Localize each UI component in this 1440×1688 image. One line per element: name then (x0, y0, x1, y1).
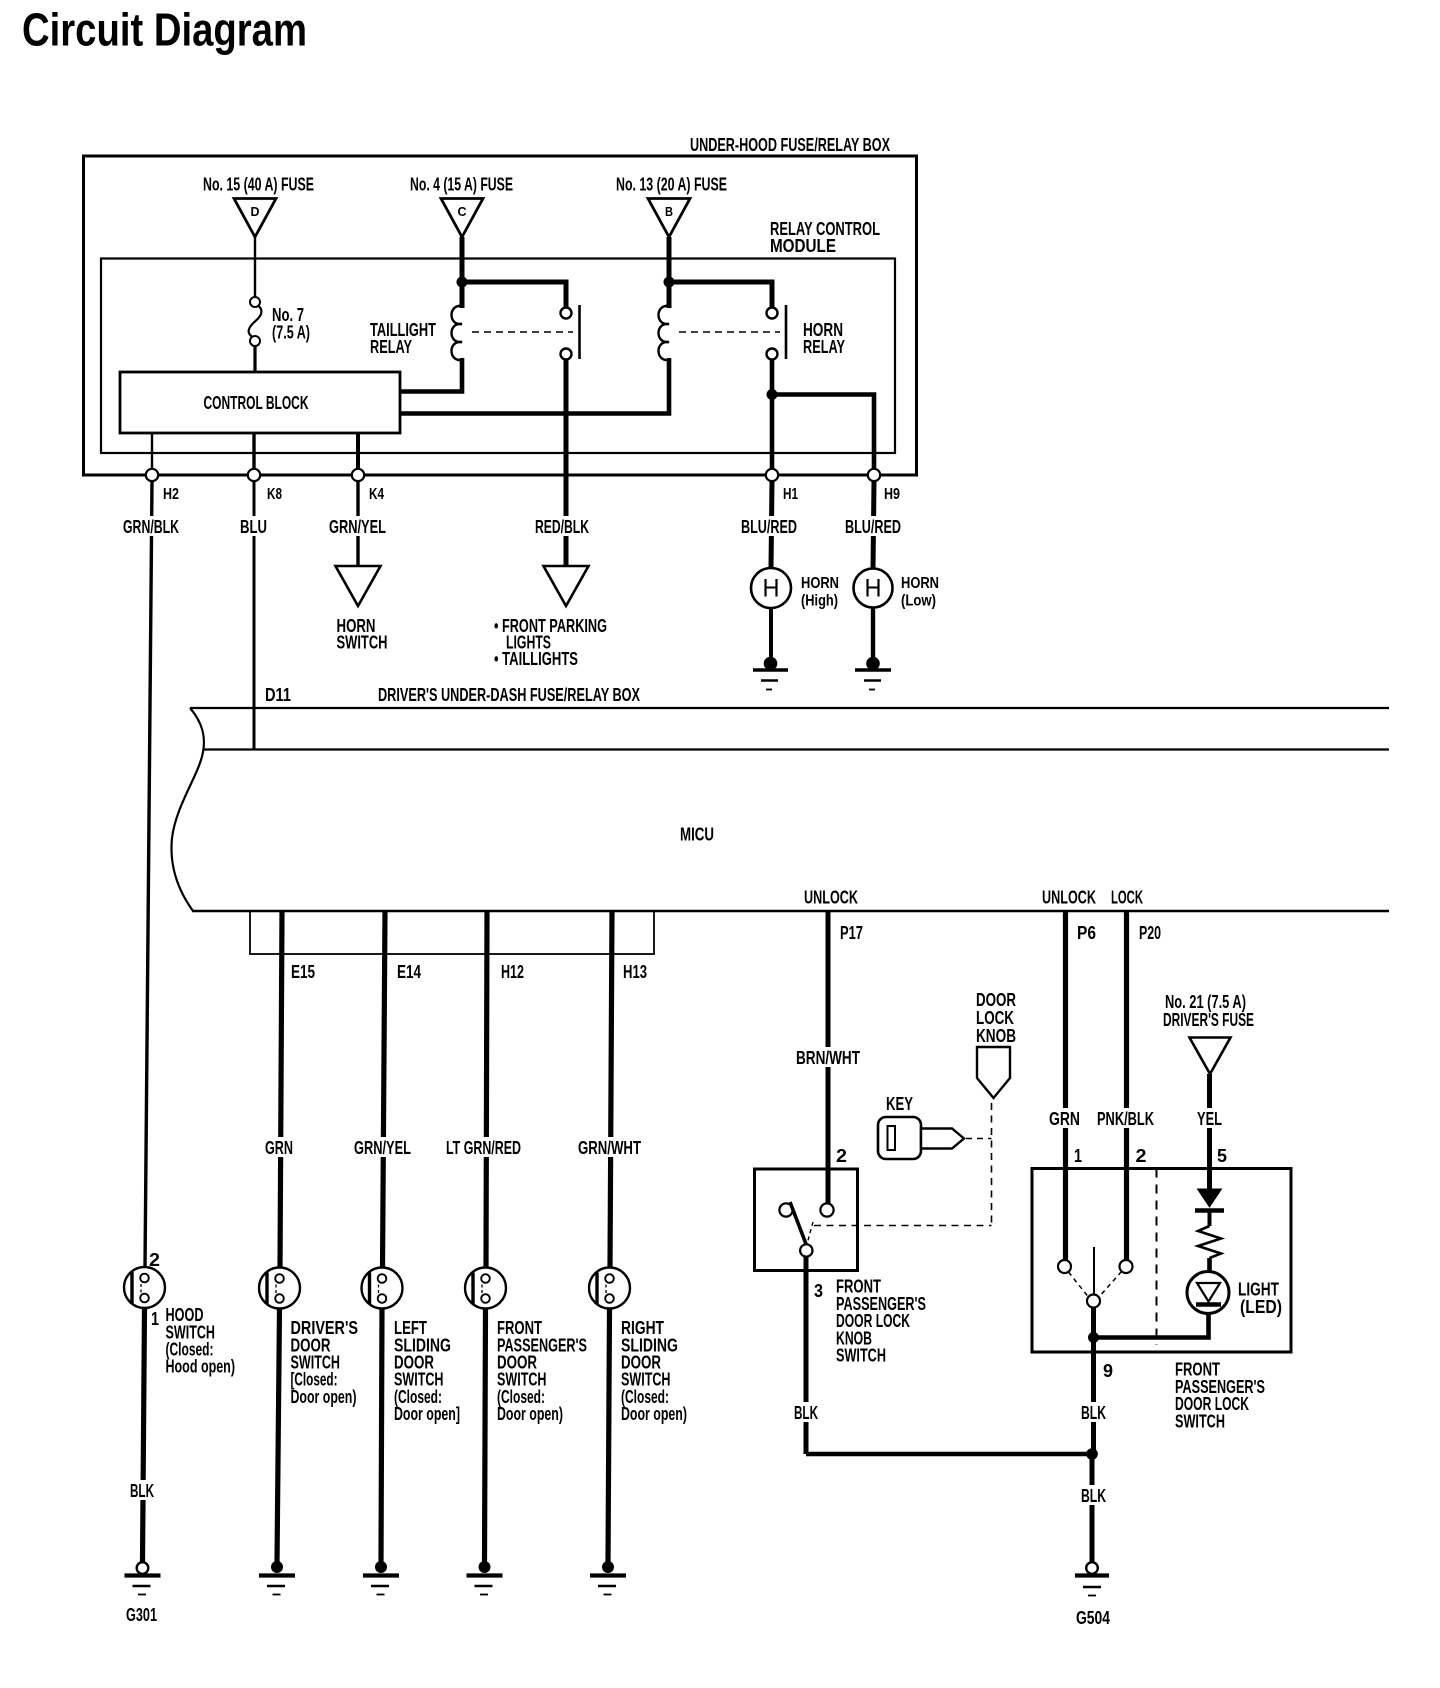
svg-text:G504: G504 (1076, 1608, 1110, 1628)
svg-text:BLU/RED: BLU/RED (741, 517, 797, 537)
wire control block to K4 (356, 433, 360, 475)
svg-text:KNOB: KNOB (976, 1026, 1016, 1046)
pin 1 hood switch (151, 1309, 159, 1329)
svg-text:BRN/WHT: BRN/WHT (796, 1048, 860, 1068)
node junction LED return (1088, 1332, 1099, 1343)
arrow to horn switch (336, 566, 388, 653)
wire junction to horn relay contact (669, 282, 772, 307)
front passenger's door lock switch box (1032, 1169, 1291, 1353)
relay control module box (101, 219, 895, 453)
horn high (751, 568, 839, 610)
wire LT GRN/RED H12 to front passenger door switch (486, 911, 487, 1268)
svg-text:DRIVER'S UNDER-DASH FUSE/RELAY: DRIVER'S UNDER-DASH FUSE/RELAY BOX (378, 685, 640, 705)
front passenger's door lock switch label (1175, 1360, 1265, 1432)
svg-text:P6: P6 (1077, 923, 1096, 943)
svg-text:Door open): Door open) (497, 1404, 563, 1424)
node junction fuse B feed (664, 277, 675, 288)
svg-text:GRN: GRN (265, 1138, 293, 1158)
diode D (1195, 1189, 1224, 1226)
label UNLOCK P6 (1042, 888, 1096, 908)
wire BLK junction to ground (1090, 1454, 1095, 1562)
wire GRN/YEL K4 to horn switch arrow (356, 481, 359, 567)
wire BLK knob switch down (804, 1256, 809, 1454)
taillight relay label (370, 320, 436, 357)
node junction BLK wires (1086, 1448, 1098, 1460)
svg-text:DOOR: DOOR (976, 990, 1016, 1010)
wire fuse B to horn relay coil (667, 237, 672, 308)
door lock knob symbol (977, 1047, 1010, 1098)
label BLK hood (128, 1480, 156, 1501)
svg-text:H2: H2 (163, 486, 179, 503)
svg-text:MICU: MICU (680, 825, 714, 845)
horn relay coil (659, 306, 670, 360)
label LOCK P20 (1111, 888, 1143, 908)
wire GRN/YEL E14 to left sliding door switch (383, 911, 386, 1268)
label BLU (238, 516, 269, 537)
pin E15 (291, 962, 315, 982)
svg-text:LOCK: LOCK (1111, 888, 1143, 908)
wire door lock switch common down (1091, 1308, 1096, 1455)
svg-text:H13: H13 (623, 962, 647, 982)
wire control block to K8 (252, 433, 255, 475)
svg-text:MODULE: MODULE (770, 236, 836, 256)
svg-text:BLK: BLK (130, 1481, 154, 1501)
under-dash box inner edge (203, 748, 1389, 750)
door lock switch dashed throws (1069, 1272, 1122, 1297)
wire left sliding door switch to ground (381, 1309, 382, 1563)
wire horn high to ground (769, 608, 773, 660)
svg-text:D: D (251, 204, 260, 219)
svg-text:P20: P20 (1139, 923, 1161, 943)
horn low (854, 569, 940, 610)
svg-text:KEY: KEY (886, 1094, 913, 1114)
door lock switch lever (1093, 1247, 1095, 1294)
pin P17 (840, 923, 863, 943)
dashed link key to knob line (966, 1138, 992, 1140)
svg-text:SWITCH: SWITCH (836, 1346, 886, 1366)
svg-text:BLK: BLK (1081, 1403, 1106, 1423)
svg-text:LT GRN/RED: LT GRN/RED (446, 1138, 521, 1158)
svg-text:G301: G301 (126, 1605, 157, 1625)
wire BLU K8 to under-dash box (253, 481, 256, 750)
ground right sliding door switch (590, 1561, 626, 1595)
fuse No.21 driver's fuse (1163, 992, 1254, 1074)
label PNK/BLK (1095, 1108, 1157, 1129)
svg-text:1: 1 (151, 1309, 159, 1329)
svg-text:No. 15 (40 A) FUSE: No. 15 (40 A) FUSE (203, 175, 314, 195)
driver's under-dash fuse/relay box label (378, 685, 640, 705)
horn relay dashed actuation link (679, 331, 780, 333)
node junction fuse C feed (457, 277, 468, 288)
pin P6 (1077, 923, 1096, 943)
front passenger's door switch label (497, 1318, 587, 1424)
taillight relay coil (452, 306, 463, 360)
svg-text:C: C (458, 204, 468, 219)
svg-text:No. 4 (15 A) FUSE: No. 4 (15 A) FUSE (410, 175, 513, 195)
horn relay label (803, 320, 845, 357)
svg-text:D11: D11 (265, 685, 291, 705)
control block (120, 372, 400, 433)
pin 9 door lock switch (1103, 1361, 1113, 1381)
svg-text:2: 2 (836, 1146, 847, 1166)
svg-text:P17: P17 (840, 923, 863, 943)
wire horn relay contact to H1 (770, 359, 775, 475)
svg-text:Door open]: Door open] (394, 1404, 460, 1424)
wire horn low to ground (871, 608, 875, 661)
door lock knob switch lever (790, 1202, 813, 1244)
door lock knob switch contacts (779, 1203, 833, 1256)
label LT GRN/RED (444, 1137, 523, 1158)
svg-text:GRN/YEL: GRN/YEL (329, 517, 386, 537)
label BRN/WHT (794, 1047, 862, 1068)
label GRN/YEL (327, 516, 388, 537)
wire GRN P6 to door lock switch (1063, 911, 1068, 1260)
svg-text:BLU: BLU (240, 517, 267, 537)
wire RED/BLK taillight contact to arrow (564, 359, 569, 566)
svg-text:5: 5 (1217, 1146, 1227, 1166)
svg-text:H1: H1 (783, 486, 798, 503)
pin 2 knob switch (836, 1146, 847, 1166)
svg-text:E14: E14 (397, 962, 421, 982)
node junction horn output (767, 389, 778, 400)
svg-text:SWITCH: SWITCH (1175, 1411, 1225, 1431)
ground G301 (125, 1562, 161, 1625)
hood switch label (166, 1305, 236, 1377)
dashed link to knob switch lever (814, 1225, 992, 1227)
hood switch (124, 1267, 165, 1308)
ground driver's door switch (259, 1561, 295, 1595)
front passenger's door switch (465, 1268, 506, 1309)
wire No.7 fuse to control block (253, 346, 256, 372)
svg-text:Hood open): Hood open) (166, 1357, 236, 1377)
wire BLU/RED H9 to horn low (873, 481, 874, 570)
wire GRN E15 to driver's door switch (280, 911, 282, 1268)
svg-text:RED/BLK: RED/BLK (535, 517, 589, 537)
svg-text:H: H (865, 575, 882, 603)
svg-text:Circuit Diagram: Circuit Diagram (22, 4, 307, 56)
label UNLOCK P17 (804, 888, 858, 908)
svg-text:LOCK: LOCK (976, 1008, 1014, 1028)
svg-text:PNK/BLK: PNK/BLK (1097, 1109, 1154, 1129)
title Circuit Diagram (22, 4, 307, 56)
svg-text:K4: K4 (369, 486, 384, 503)
door lock switch contacts (1058, 1260, 1133, 1308)
svg-text:(Low): (Low) (901, 593, 936, 610)
ground left sliding door switch (363, 1561, 399, 1595)
wire GRN/WHT H13 to right sliding door switch (610, 911, 612, 1268)
wire junction to taillight relay contact (462, 282, 566, 307)
svg-text:RELAY: RELAY (803, 337, 845, 357)
taillight relay dashed actuation link (472, 331, 573, 333)
label BLK knob switch (792, 1402, 820, 1423)
pin 1 door lock switch (1074, 1146, 1082, 1166)
svg-text:3: 3 (814, 1281, 823, 1301)
left sliding door switch label (394, 1318, 460, 1424)
horn relay contact (767, 305, 787, 360)
svg-text:B: B (665, 204, 673, 219)
svg-text:(7.5 A): (7.5 A) (272, 323, 310, 343)
svg-text:1: 1 (1074, 1146, 1082, 1166)
fuse B No.13 20A (616, 175, 727, 238)
svg-text:H: H (763, 575, 780, 603)
pin H2 (146, 469, 179, 503)
wire YEL fuse to diode (1207, 1074, 1212, 1189)
under-dash box bottom edge (192, 910, 1389, 913)
svg-text:BLK: BLK (794, 1403, 818, 1423)
svg-text:DRIVER'S FUSE: DRIVER'S FUSE (1163, 1010, 1254, 1030)
pin 2 door lock switch (1136, 1146, 1147, 1166)
pin P20 (1139, 923, 1161, 943)
svg-text:H9: H9 (884, 486, 900, 503)
pin E14 (397, 962, 421, 982)
driver's door switch label (291, 1318, 359, 1407)
pin 3 knob switch (814, 1281, 823, 1301)
svg-text:2: 2 (149, 1250, 160, 1270)
connector bracket under MICU (250, 911, 654, 954)
svg-text:2: 2 (1136, 1146, 1147, 1166)
wire horn relay coil to control block (401, 358, 669, 414)
svg-text:CONTROL BLOCK: CONTROL BLOCK (204, 393, 309, 413)
svg-text:BLK: BLK (1081, 1486, 1106, 1506)
wire GRN/BLK H2 to hood switch (145, 481, 152, 1269)
wire driver's door switch to ground (277, 1309, 280, 1563)
svg-text:9: 9 (1103, 1361, 1113, 1381)
svg-text:(LED): (LED) (1240, 1297, 1282, 1317)
wire PNK/BLK P20 to door lock switch (1124, 911, 1129, 1260)
right sliding door switch label (621, 1318, 687, 1424)
label GRN P6 (1047, 1108, 1083, 1129)
taillight relay contact (561, 305, 580, 360)
svg-text:BLU/RED: BLU/RED (845, 517, 901, 537)
dashed link knob down (991, 1103, 993, 1226)
wire fuse D to No.7 fuse (254, 237, 256, 297)
label BLU/RED H1 (739, 516, 800, 537)
left sliding door switch (362, 1268, 403, 1309)
label GRN (263, 1137, 295, 1158)
svg-text:Door open): Door open) (621, 1404, 687, 1424)
ground G504 (1075, 1562, 1110, 1628)
wire front passenger's door switch to ground (485, 1309, 486, 1563)
pin K8 (248, 469, 282, 503)
label MICU (680, 825, 714, 845)
driver's door switch (259, 1268, 300, 1309)
fuse D No.15 40A (203, 175, 314, 238)
pin 2 hood switch (149, 1250, 160, 1270)
svg-text:HORN: HORN (901, 575, 939, 592)
fuse C No.4 15A (410, 175, 513, 238)
svg-text:K8: K8 (267, 486, 282, 503)
LED lamp (1187, 1272, 1229, 1314)
front passenger's door lock knob switch label (836, 1277, 926, 1366)
pin H12 (501, 962, 524, 982)
svg-text:YEL: YEL (1197, 1109, 1222, 1129)
svg-text:GRN/BLK: GRN/BLK (123, 517, 179, 537)
svg-text:UNLOCK: UNLOCK (1042, 888, 1096, 908)
arrow to parking lights (494, 566, 607, 669)
svg-text:RELAY: RELAY (370, 337, 412, 357)
svg-text:GRN/YEL: GRN/YEL (354, 1138, 411, 1158)
under-hood fuse/relay box (84, 135, 917, 475)
svg-text:UNLOCK: UNLOCK (804, 888, 858, 908)
ground horn high (753, 657, 788, 690)
svg-text:GRN/WHT: GRN/WHT (578, 1138, 641, 1158)
pin H1 (766, 469, 798, 503)
svg-text:No. 21 (7.5 A): No. 21 (7.5 A) (1165, 992, 1246, 1012)
label GRN/WHT (576, 1137, 643, 1158)
pin H9 (868, 469, 900, 503)
wire control block to H2 (151, 433, 153, 475)
svg-text:• TAILLIGHTS: • TAILLIGHTS (494, 649, 578, 669)
wire BLK hood switch to ground (143, 1308, 145, 1562)
wire BLK horizontal to junction (806, 1452, 1092, 1457)
ground horn low (855, 657, 891, 690)
pin H13 (623, 962, 647, 982)
LED label (1238, 1280, 1282, 1318)
label GRN/BLK (121, 516, 181, 537)
wire LED return horizontal (1094, 1312, 1209, 1338)
resistor R (1198, 1226, 1221, 1272)
front passenger's door lock knob switch box (755, 1169, 858, 1271)
wire BRN/WHT P17 to door lock knob switch (826, 911, 831, 1205)
door lock knob label (976, 990, 1016, 1046)
right sliding door switch (589, 1268, 630, 1309)
pin 5 door lock switch (1217, 1146, 1227, 1166)
label BLU/RED H9 (843, 516, 904, 537)
svg-text:HORN: HORN (801, 575, 839, 592)
svg-text:No. 13 (20 A) FUSE: No. 13 (20 A) FUSE (616, 175, 727, 195)
svg-text:(High): (High) (801, 593, 838, 610)
wire BLU/RED H1 to horn high (771, 481, 772, 569)
svg-text:H12: H12 (501, 962, 524, 982)
svg-text:GRN: GRN (1049, 1109, 1080, 1129)
ground front passenger's door switch (467, 1561, 503, 1595)
under-dash box torn left edge (172, 708, 204, 911)
under-dash box top edge (190, 707, 1389, 709)
key symbol (878, 1094, 964, 1159)
fuse No.7 7.5A (249, 297, 310, 346)
wire horn output branch to H9 (772, 395, 874, 476)
svg-text:UNDER-HOOD FUSE/RELAY BOX: UNDER-HOOD FUSE/RELAY BOX (690, 135, 890, 155)
pin K4 (352, 469, 384, 503)
label GRN/YEL E14 (352, 1137, 413, 1158)
dashed divider in door lock switch box (1156, 1169, 1158, 1346)
wire taillight relay coil to control block (401, 358, 462, 392)
svg-text:E15: E15 (291, 962, 315, 982)
svg-text:Door open): Door open) (291, 1387, 357, 1407)
label BLK ground wire (1079, 1485, 1108, 1506)
label D11 (265, 685, 291, 705)
label YEL (1195, 1108, 1224, 1129)
wire fuse C to taillight relay coil (460, 237, 465, 308)
wire right sliding door switch to ground (608, 1309, 610, 1563)
label BLK door lock switch (1079, 1402, 1108, 1423)
svg-text:SWITCH: SWITCH (337, 633, 388, 653)
label RED/BLK (533, 516, 592, 537)
